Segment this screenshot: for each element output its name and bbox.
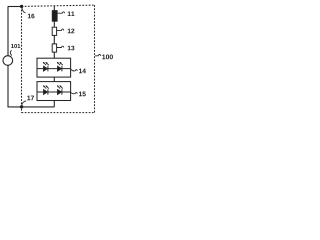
LEDs in box 14 — [37, 62, 71, 71]
label 12 — [68, 29, 75, 34]
wire 12-13 — [53, 35, 55, 44]
label 14 — [79, 69, 86, 74]
fuse 11 — [52, 11, 57, 22]
midline box15 — [37, 91, 71, 93]
LED module box 15 — [37, 82, 71, 101]
LED D2 cathode bar — [61, 66, 63, 71]
LED D4 arrows — [57, 86, 63, 89]
terminal node 17 — [20, 105, 23, 108]
midline box14 — [37, 68, 71, 70]
LED D4 triangle — [57, 89, 61, 94]
LED D1 cathode bar — [47, 66, 49, 71]
LED D2 triangle — [57, 66, 61, 71]
label 100 — [102, 54, 113, 59]
leader 101 — [10, 50, 11, 55]
leader 16 — [22, 8, 26, 13]
AC source 101 — [3, 56, 13, 66]
wire bottom — [8, 106, 55, 108]
leader lines — [10, 8, 101, 105]
wire left lower — [7, 65, 9, 107]
leader 13 — [57, 46, 64, 47]
label 101 — [11, 44, 20, 48]
LED D3 arrows — [43, 86, 49, 89]
label 16 — [28, 14, 35, 19]
label 11 — [68, 11, 75, 16]
wire chain top — [53, 6, 55, 11]
resistor 13 — [52, 44, 56, 52]
LED D3 triangle — [43, 89, 47, 94]
terminal node 16 — [20, 5, 23, 8]
leader 14 — [71, 69, 78, 71]
label 17 — [27, 96, 34, 101]
wire left upper — [7, 6, 9, 56]
label 15 — [79, 92, 86, 97]
LED D3 cathode bar — [47, 89, 49, 94]
resistor 12 — [52, 27, 56, 35]
leader 15 — [71, 92, 78, 93]
wire 11-12 — [53, 21, 55, 27]
label 13 — [68, 46, 75, 51]
LED module box 14 — [37, 58, 71, 77]
LED D1 arrows — [43, 62, 49, 65]
leader 11 — [57, 12, 64, 13]
wire top — [8, 6, 22, 8]
wire box14-box15 — [53, 77, 55, 82]
leader 12 — [57, 29, 64, 30]
dashed box 100 — [22, 5, 95, 6]
leader 17 — [22, 101, 26, 105]
leader 100 — [95, 54, 101, 55]
LEDs in box 15 — [37, 85, 71, 94]
LED D4 cathode bar — [61, 89, 63, 94]
LED D2 arrows — [57, 62, 63, 65]
LED D1 triangle — [43, 66, 47, 71]
wire box15-bottom — [53, 101, 55, 108]
wire 13-box14 — [53, 52, 55, 58]
